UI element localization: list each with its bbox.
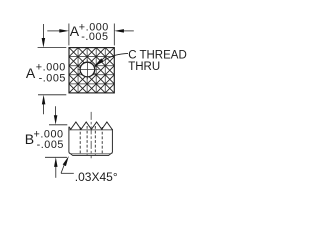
svg-text:C THREAD: C THREAD [128, 50, 187, 62]
thread hole C (white knockout circle) [80, 62, 95, 77]
dimension B (left of side view) [45, 106, 67, 178]
dim line right [123, 30, 134, 32]
square outline [69, 48, 114, 93]
extension line bottom [45, 156, 67, 158]
side view outline [69, 122, 113, 155]
hole centerlines [78, 60, 99, 79]
vertical centerline [90, 112, 92, 158]
arrow right-pointing [59, 29, 69, 33]
svg-text:THRU: THRU [128, 61, 160, 73]
arrow down-pointing [42, 38, 46, 48]
svg-text:-.005: -.005 [37, 139, 64, 151]
extension line right [113, 24, 115, 46]
knurl grid horizontal lines [69, 56, 114, 58]
dimension A (top, horizontal) [47, 24, 134, 46]
svg-text:-.005: -.005 [81, 31, 108, 43]
dim line left [47, 30, 60, 32]
arrow up-pointing B [54, 157, 58, 167]
hidden thread lines (dashed) [80, 126, 102, 155]
bottom chamfer left [69, 153, 73, 156]
leader arrowhead up-right [63, 156, 69, 166]
knurl diagonal lattice [69, 84, 78, 93]
svg-text:A: A [26, 65, 36, 81]
knurled square body (top view) [69, 48, 114, 93]
arrow up-pointing [42, 95, 46, 105]
dim line top [42, 24, 44, 39]
arrow left-pointing [114, 29, 124, 33]
leader to C THREAD THRU [104, 53, 129, 60]
arrow down-pointing B [54, 115, 58, 124]
extension line top [49, 124, 67, 126]
svg-text:.03X45°: .03X45° [75, 170, 118, 184]
svg-text:-.005: -.005 [39, 72, 66, 84]
dim line top [55, 106, 57, 116]
right edge [111, 129, 113, 153]
dimension A (left, vertical) [38, 24, 67, 114]
dim line bottom [55, 166, 57, 178]
crest base line [69, 129, 113, 131]
leader arrowhead [94, 58, 104, 66]
dim line bottom [43, 104, 45, 114]
bottom chamfer right [109, 153, 113, 156]
extension line top [38, 47, 67, 49]
thread crest zigzag [69, 122, 113, 129]
bottom edge [72, 154, 109, 156]
chamfer line above bottom [69, 153, 113, 155]
extension line bottom [38, 94, 66, 96]
chamfer leader .03X45 [61, 165, 74, 173]
extension line left [68, 24, 70, 46]
knurl grid vertical lines [77, 48, 79, 93]
left edge [68, 127, 70, 153]
